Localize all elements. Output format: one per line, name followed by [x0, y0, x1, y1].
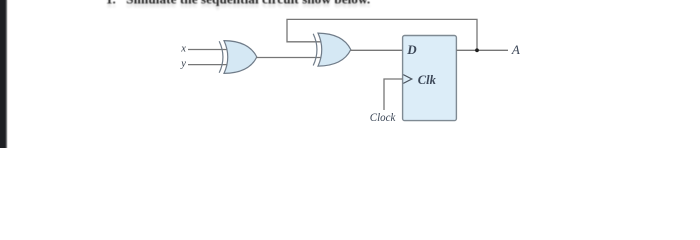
wire y input: [188, 64, 228, 66]
wire feedback (A to G2 top input): [287, 19, 477, 50]
svg-text:Simulate the sequential circui: Simulate the sequential circuit show bel…: [126, 0, 370, 10]
xor gate G2: [313, 33, 351, 66]
clock input triangle: [403, 75, 412, 84]
svg-text:1.: 1.: [106, 0, 116, 10]
wire G2 output to D input: [350, 49, 403, 51]
svg-text:x: x: [180, 44, 186, 55]
wire clock input: [384, 79, 403, 110]
svg-text:Clk: Clk: [418, 73, 437, 87]
svg-text:Clock: Clock: [370, 110, 396, 124]
svg-text:D: D: [406, 42, 417, 57]
svg-text:A: A: [511, 42, 520, 57]
xor gate G1: [219, 41, 257, 74]
wire Q output to A: [456, 49, 508, 51]
title text: [106, 0, 370, 10]
junction dot: [475, 48, 479, 52]
d flip-flop U1: [403, 36, 457, 121]
wire G1 output to G2 input: [256, 57, 321, 59]
wire x input: [188, 49, 228, 51]
svg-text:y: y: [180, 59, 186, 70]
